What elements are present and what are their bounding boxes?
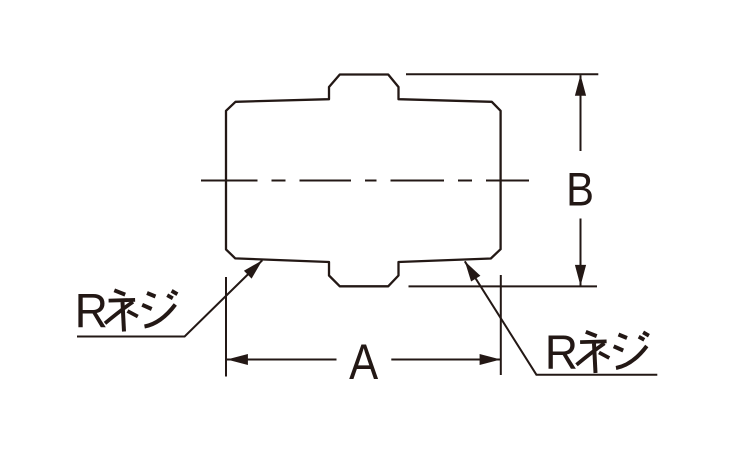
dimension A: line right segment — [391, 359, 500, 361]
dimension A: extension line right — [500, 275, 502, 375]
kana ne (right) — [577, 332, 610, 373]
kana zi (right) — [614, 332, 649, 368]
dimension B: bottom arrowhead — [575, 265, 586, 286]
dimension B: extension line top — [406, 73, 598, 75]
dimension A: right arrowhead — [480, 354, 501, 365]
kana ne (left) — [105, 290, 138, 331]
dimension B: extension line bottom — [409, 285, 598, 287]
dimension B: line bottom segment — [580, 219, 582, 286]
svg-text:A: A — [349, 333, 379, 390]
left leader underline — [77, 260, 262, 336]
right leader underline — [465, 261, 658, 374]
svg-text:R: R — [545, 326, 578, 380]
dimension B: line top segment — [580, 75, 582, 151]
centerline — [201, 179, 529, 181]
kana zi (left) — [142, 291, 177, 327]
dimension A: left arrowhead — [227, 354, 248, 365]
dimension B: top arrowhead — [575, 75, 586, 96]
dimension A: line left segment — [227, 359, 337, 361]
svg-text:B: B — [566, 164, 594, 216]
fitting body outline — [226, 75, 501, 287]
dimension A: extension line left — [225, 277, 227, 377]
left leader arrowhead — [244, 260, 262, 278]
right leader arrowhead — [465, 261, 481, 281]
svg-text:R: R — [75, 285, 108, 339]
